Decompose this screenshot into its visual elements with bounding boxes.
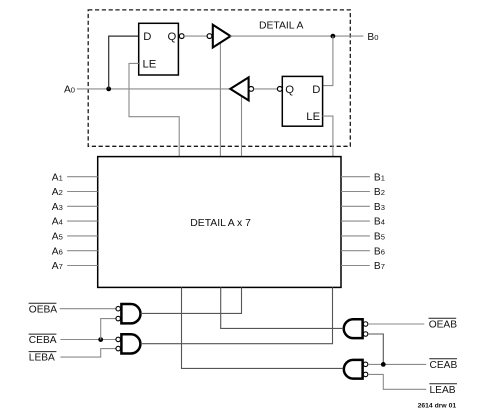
wire B2 [341, 191, 370, 193]
dashed box DETAIL A [88, 10, 350, 146]
latch U1 (A-to-B) [139, 23, 179, 75]
svg-text:A2: A2 [52, 187, 63, 198]
svg-text:A0: A0 [64, 85, 75, 96]
wire A0 input [77, 88, 231, 90]
label A4 [52, 217, 63, 228]
wire U4 enable [241, 95, 243, 157]
svg-text:LEBA: LEBA [29, 353, 55, 364]
label A5 [52, 232, 63, 243]
wire LEBA to gate G2 lower input [60, 349, 116, 358]
svg-text:LE: LE [306, 111, 320, 123]
svg-text:B3: B3 [374, 202, 385, 213]
gate G1 (OEBA,CEBA) [116, 304, 141, 323]
label A2 [52, 187, 63, 198]
label DETAIL A [259, 21, 304, 32]
svg-text:CEBA: CEBA [29, 335, 57, 346]
svg-text:B2: B2 [374, 187, 385, 198]
node CEBA junction [98, 337, 103, 342]
wire U3 LE feed [323, 116, 333, 157]
label B5 [374, 232, 385, 243]
label LEBA [29, 352, 57, 364]
svg-text:DETAIL A x 7: DETAIL A x 7 [190, 218, 251, 229]
wire CEBA [60, 339, 116, 341]
label OEAB [429, 318, 458, 330]
wire U2 output to B0 [230, 35, 363, 37]
svg-text:2614 drw 01: 2614 drw 01 [418, 403, 457, 410]
bubble U1 Q output [179, 34, 184, 39]
buffer U4 (B-to-A, three-state) [230, 77, 253, 100]
svg-text:A6: A6 [52, 246, 63, 257]
label A6 [52, 246, 63, 257]
svg-text:B1: B1 [374, 172, 385, 183]
svg-text:A4: A4 [52, 217, 63, 228]
box DETAIL A x 7 [98, 157, 341, 288]
svg-text:B5: B5 [374, 232, 385, 243]
svg-text:OEAB: OEAB [429, 319, 458, 330]
gate G3 (OEAB,CEAB) [344, 319, 368, 338]
wire LEAB to gate G4 lower input [368, 374, 426, 389]
wire B6 [341, 250, 370, 252]
gate G4 (CEAB,LEAB) [344, 360, 368, 379]
svg-text:D: D [312, 84, 320, 96]
svg-text:A3: A3 [52, 202, 63, 213]
label CEBA [29, 334, 57, 346]
svg-text:A5: A5 [52, 232, 63, 243]
wire OEAB [368, 323, 424, 325]
wire B1 [341, 176, 370, 178]
wire G2 output [141, 287, 333, 343]
svg-text:B4: B4 [374, 217, 385, 228]
latch U3 (B-to-A) [282, 76, 322, 126]
svg-text:Q: Q [168, 31, 177, 43]
wire G1 output [141, 287, 242, 313]
wire OEBA [60, 308, 117, 310]
svg-text:LE: LE [143, 58, 157, 70]
svg-text:A1: A1 [52, 172, 63, 183]
node A0 junction [106, 87, 111, 92]
svg-text:D: D [143, 31, 151, 43]
buffer U2 (A-to-B, three-state) [207, 25, 230, 48]
wire A1 [67, 176, 98, 178]
label B3 [374, 202, 385, 213]
label A7 [52, 261, 63, 272]
label A0 [64, 85, 75, 96]
node B0 junction [331, 34, 336, 39]
label drawing number [418, 403, 457, 410]
wire U2 enable [219, 42, 221, 157]
label OEBA [29, 303, 58, 315]
label B7 [374, 261, 385, 272]
svg-text:B6: B6 [374, 246, 385, 257]
wire G3 output [221, 287, 344, 328]
wire CEBA to gate G1 lower input [101, 319, 117, 340]
svg-text:OEBA: OEBA [29, 304, 58, 315]
wire B7 [341, 265, 370, 267]
wire A3 [67, 205, 98, 207]
wire A7 [67, 265, 98, 267]
wire B0 to latch U3 D input [323, 36, 333, 86]
wire A2 [67, 191, 98, 193]
wire A4 [67, 220, 98, 222]
svg-text:Q: Q [285, 84, 294, 96]
wire U1 LE feed [129, 63, 179, 156]
wire A6 [67, 250, 98, 252]
svg-text:LEAB: LEAB [430, 385, 456, 396]
svg-text:B7: B7 [374, 261, 385, 272]
label B1 [374, 172, 385, 183]
svg-text:A7: A7 [52, 261, 63, 272]
label B0 [367, 32, 378, 43]
wire B3 [341, 205, 370, 207]
svg-text:CEAB: CEAB [430, 360, 458, 371]
label B6 [374, 246, 385, 257]
bubble U3 Q output [277, 87, 282, 92]
wire U1 Q to buffer U2 [184, 35, 207, 37]
node CEAB junction [381, 362, 386, 367]
svg-text:DETAIL A: DETAIL A [259, 21, 304, 32]
label B4 [374, 217, 385, 228]
wire G4 output [182, 287, 344, 368]
label A3 [52, 202, 63, 213]
label B2 [374, 187, 385, 198]
label LEAB [429, 384, 457, 396]
gate G2 (CEBA,LEBA) [116, 334, 140, 353]
wire B5 [341, 235, 370, 237]
wire U4 output bubble to U3 Q [254, 88, 278, 90]
wire G3 lower input to CEAB [368, 334, 383, 364]
label CEAB [429, 359, 457, 371]
wire CEAB [368, 363, 426, 365]
wire B4 [341, 220, 370, 222]
wire A5 [67, 235, 98, 237]
wire A0 to latch U1 D input [109, 36, 139, 89]
label A1 [52, 172, 63, 183]
svg-text:B0: B0 [367, 32, 378, 43]
